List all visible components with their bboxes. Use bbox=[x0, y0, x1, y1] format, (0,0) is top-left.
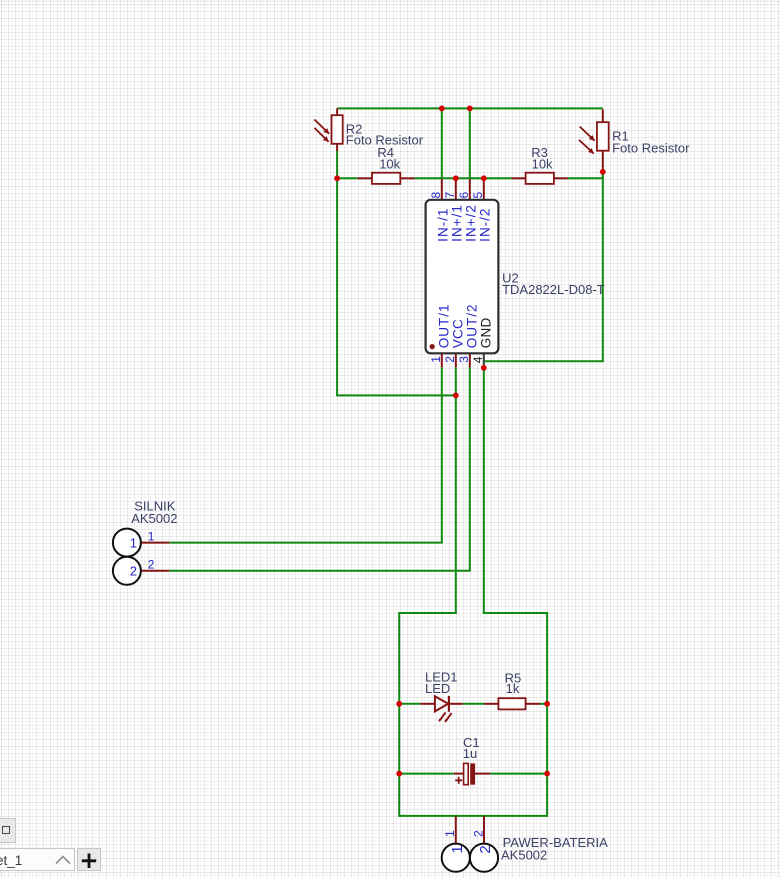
pin R2 bottom bbox=[336, 144, 338, 151]
pin PAWER-BATERIA 1 bbox=[455, 816, 457, 844]
junction dot pin5/second rail bbox=[481, 175, 487, 181]
svg-text:OUT/2: OUT/2 bbox=[464, 303, 479, 348]
svg-text:LED: LED bbox=[425, 681, 450, 696]
capacitor C1 negative plate bbox=[470, 763, 475, 784]
UI corner button square icon bbox=[2, 826, 10, 834]
pin U2-4 GND bbox=[483, 353, 485, 367]
svg-text:3: 3 bbox=[457, 356, 471, 363]
pin LED anode bbox=[420, 703, 435, 705]
wire right rail down bbox=[602, 172, 604, 361]
junction dot pin8/top rail bbox=[439, 106, 445, 112]
UI sheet tab bbox=[0, 848, 75, 871]
wire LED to R5 bbox=[463, 703, 484, 705]
pin R1 top bbox=[602, 109, 604, 122]
wire pin2 VCC down bbox=[455, 367, 457, 613]
resistor R2 light arrows bbox=[314, 120, 329, 134]
svg-text:10k: 10k bbox=[532, 157, 553, 172]
pin U2-5 bbox=[483, 178, 485, 200]
svg-text:1: 1 bbox=[443, 830, 457, 837]
wire top rail bbox=[337, 107, 603, 109]
wire pin4 GND down bbox=[483, 367, 485, 613]
wire C1 row left bbox=[399, 773, 454, 775]
junction dot R1 bottom bbox=[600, 169, 606, 175]
svg-text:1: 1 bbox=[429, 356, 443, 363]
svg-text:7: 7 bbox=[443, 192, 457, 199]
wire box top-right bbox=[483, 612, 547, 614]
svg-text:TDA2822L-D08-T: TDA2822L-D08-T bbox=[502, 282, 605, 297]
svg-text:6: 6 bbox=[457, 192, 471, 199]
junction dot pin4 node bbox=[481, 365, 487, 371]
wire box right side bbox=[546, 612, 548, 817]
svg-text:AK5002: AK5002 bbox=[501, 847, 547, 862]
pin C1 left bbox=[454, 773, 464, 775]
svg-text:AK5002: AK5002 bbox=[131, 511, 177, 526]
pin U2-2 bbox=[455, 353, 457, 367]
svg-text:1k: 1k bbox=[506, 681, 520, 696]
pin R4 left bbox=[358, 177, 373, 179]
pin U2-8 bbox=[441, 179, 443, 200]
LED1 light arrows bbox=[439, 712, 446, 721]
resistor R4 body bbox=[372, 173, 400, 184]
junction dot LED row left bbox=[396, 701, 402, 707]
wire left rail down bbox=[336, 178, 338, 395]
svg-text:OUT/1: OUT/1 bbox=[436, 303, 451, 348]
wire box bottom bbox=[399, 815, 547, 817]
wire pin8 to top rail bbox=[441, 108, 443, 179]
wire silnik row1 bbox=[169, 542, 443, 544]
pin U2-7 bbox=[455, 178, 457, 200]
wire second rail left segment bbox=[337, 177, 358, 179]
svg-text:1: 1 bbox=[449, 845, 466, 853]
wire pin6 to top rail bbox=[469, 108, 471, 179]
wire silnik row2 bbox=[169, 570, 471, 572]
svg-text:2: 2 bbox=[472, 830, 486, 837]
wire LED row left bbox=[399, 703, 420, 705]
wire box top-left bbox=[399, 612, 457, 614]
svg-text:2: 2 bbox=[148, 558, 155, 572]
pin U2-6 bbox=[469, 179, 471, 200]
connector SILNIK pin1 circle bbox=[113, 529, 141, 557]
pin R4 right bbox=[400, 177, 415, 179]
svg-text:2: 2 bbox=[477, 845, 494, 853]
pin PAWER-BATERIA 2 bbox=[483, 816, 485, 844]
svg-text:IN+/1: IN+/1 bbox=[450, 204, 465, 242]
wire R1 to rail bbox=[602, 172, 604, 179]
pin U2-3 bbox=[469, 353, 471, 367]
wire pin4 horizontal to right rail bbox=[484, 360, 604, 362]
pin R1 bottom bbox=[602, 150, 604, 172]
op-amp U2 TDA2822 body bbox=[426, 200, 499, 353]
UI add sheet plus icon bbox=[79, 851, 99, 871]
svg-text:IN+/2: IN+/2 bbox=[464, 204, 479, 242]
pin C1 right bbox=[475, 773, 490, 775]
pin SILNIK 1 bbox=[141, 542, 169, 544]
resistor R1 photoresistor body bbox=[597, 122, 609, 151]
wire C1 to right rail bbox=[490, 773, 547, 775]
svg-text:2: 2 bbox=[443, 356, 457, 363]
pin R3 left bbox=[511, 177, 526, 179]
junction dot left rail/second rail bbox=[334, 175, 340, 181]
capacitor C1 positive plate bbox=[464, 763, 469, 784]
wire R5 to right rail bbox=[540, 703, 547, 705]
junction dot pin7/second rail bbox=[453, 175, 459, 181]
svg-text:GND: GND bbox=[479, 318, 494, 349]
svg-text:1: 1 bbox=[148, 529, 155, 543]
svg-text:VCC: VCC bbox=[450, 319, 465, 348]
resistor R2 photoresistor body bbox=[332, 115, 343, 144]
svg-text:IN-/2: IN-/2 bbox=[478, 208, 493, 242]
connector PAWER-BATERIA pin2 circle bbox=[470, 844, 498, 872]
junction dot LED row right bbox=[544, 701, 550, 707]
LED1 cathode bar bbox=[448, 696, 450, 712]
UI corner button bbox=[0, 818, 16, 843]
wire box left side bbox=[398, 612, 400, 817]
resistor R1 light arrows bbox=[580, 127, 595, 141]
junction dot VCC/jumper bbox=[453, 393, 459, 399]
UI sheet tab label bbox=[0, 853, 22, 868]
svg-text:1: 1 bbox=[130, 535, 137, 550]
wire second rail mid segment bbox=[415, 177, 512, 179]
svg-text:8: 8 bbox=[429, 192, 443, 199]
svg-text:IN-/1: IN-/1 bbox=[436, 208, 451, 242]
resistor R3 body bbox=[526, 173, 554, 184]
wire jumper to VCC bbox=[336, 394, 456, 396]
svg-text:1u: 1u bbox=[463, 746, 477, 761]
wire R2 to rail bbox=[336, 151, 338, 178]
pin LED cathode bbox=[449, 703, 463, 705]
capacitor C1 plus sign bbox=[455, 779, 462, 781]
op-amp U2 pin1 marker dot bbox=[430, 344, 435, 349]
pin R5 right bbox=[526, 703, 540, 705]
wire second rail right segment bbox=[568, 177, 603, 179]
pin U2-1 bbox=[441, 353, 443, 367]
resistor R5 body bbox=[498, 698, 525, 709]
pin R3 right bbox=[554, 177, 568, 179]
svg-text:10k: 10k bbox=[379, 157, 400, 172]
svg-text:2: 2 bbox=[130, 564, 137, 579]
junction dot pin6/top rail bbox=[467, 106, 473, 112]
svg-text:5: 5 bbox=[471, 192, 485, 199]
svg-text:4: 4 bbox=[471, 356, 485, 363]
pin R2 top bbox=[336, 108, 338, 116]
UI sheet tab chevron bbox=[54, 854, 72, 866]
connector SILNIK pin2 circle bbox=[113, 557, 141, 585]
junction dot C1 row left bbox=[396, 771, 402, 777]
connector PAWER-BATERIA pin1 circle bbox=[442, 844, 470, 872]
pin R5 left bbox=[484, 703, 498, 705]
wire pin3 down bbox=[469, 367, 471, 570]
UI add sheet button bbox=[77, 848, 101, 871]
junction dot C1 row right bbox=[544, 771, 550, 777]
pin SILNIK 2 bbox=[141, 570, 169, 572]
wire pin1 down bbox=[441, 367, 443, 542]
svg-text:Foto Resistor: Foto Resistor bbox=[612, 141, 690, 156]
LED1 triangle bbox=[435, 696, 448, 711]
